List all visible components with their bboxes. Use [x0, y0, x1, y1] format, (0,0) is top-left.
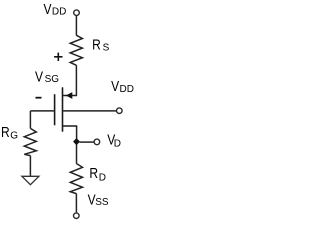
svg-text:D: D [114, 138, 121, 149]
svg-text:SS: SS [95, 197, 109, 208]
svg-text:V: V [44, 1, 52, 17]
svg-text:R: R [1, 124, 10, 140]
svg-text:R: R [92, 36, 101, 52]
svg-text:R: R [89, 165, 98, 181]
svg-text:G: G [10, 131, 18, 142]
svg-text:V: V [111, 78, 119, 94]
svg-text:D: D [99, 173, 106, 184]
svg-text:S: S [103, 43, 110, 54]
svg-text:V: V [35, 69, 43, 85]
svg-text:SG: SG [45, 74, 60, 85]
svg-text:DD: DD [52, 7, 66, 18]
svg-text:DD: DD [120, 84, 134, 95]
